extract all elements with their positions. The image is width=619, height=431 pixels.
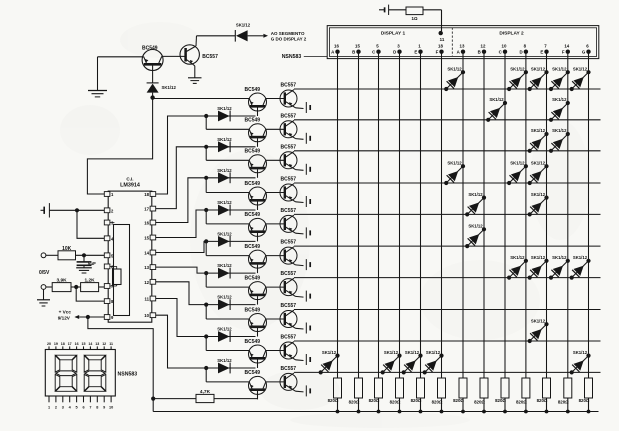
svg-text:1: 1 [48,406,50,410]
svg-text:SK1/12: SK1/12 [217,327,232,332]
svg-text:BC549: BC549 [245,339,261,345]
svg-text:12: 12 [481,44,486,49]
svg-text:SK1/12: SK1/12 [217,358,232,363]
svg-text:16: 16 [334,44,339,49]
svg-text:BC549: BC549 [245,87,261,93]
svg-text:20: 20 [47,342,51,346]
svg-text:820Ω: 820Ω [474,399,485,404]
svg-text:SK1/12: SK1/12 [447,160,462,165]
svg-text:G: G [582,50,586,55]
svg-text:4,7K: 4,7K [200,389,211,395]
svg-text:15: 15 [144,236,149,241]
svg-text:11: 11 [144,297,149,302]
svg-text:10: 10 [109,406,113,410]
svg-text:9: 9 [103,406,105,410]
svg-text:11: 11 [109,342,113,346]
svg-text:SK1/12: SK1/12 [573,350,588,355]
svg-text:SK1/12: SK1/12 [510,66,525,71]
svg-text:5μF: 5μF [88,261,96,266]
svg-text:820Ω: 820Ω [369,398,380,403]
svg-text:BC549: BC549 [245,370,261,376]
svg-text:13: 13 [460,44,465,49]
svg-text:SK1/12: SK1/12 [552,255,567,260]
svg-text:14: 14 [564,44,569,49]
svg-text:6: 6 [82,406,84,410]
svg-text:SK1/12: SK1/12 [384,350,399,355]
svg-text:SK1/12: SK1/12 [468,192,483,197]
svg-text:NSN583: NSN583 [118,371,138,377]
svg-text:17: 17 [144,207,149,212]
svg-text:13: 13 [95,342,99,346]
svg-text:16: 16 [144,221,149,226]
svg-text:B: B [352,50,355,55]
svg-text:12: 12 [144,280,149,285]
svg-text:C.I.: C.I. [126,176,133,181]
svg-text:SK1/12: SK1/12 [531,66,546,71]
svg-text:820Ω: 820Ω [495,398,506,403]
svg-text:11: 11 [440,37,445,42]
svg-text:BC557: BC557 [281,144,297,150]
svg-text:SK1/12: SK1/12 [552,97,567,102]
svg-text:SK1/12: SK1/12 [573,255,588,260]
svg-text:G DO DISPLAY 2: G DO DISPLAY 2 [271,37,307,42]
svg-text:14: 14 [88,342,92,346]
svg-text:E: E [414,50,417,55]
svg-text:17: 17 [68,342,72,346]
svg-text:SK1/12: SK1/12 [531,318,546,323]
svg-text:F: F [436,50,439,55]
svg-text:12: 12 [102,342,106,346]
svg-text:820Ω: 820Ω [349,399,360,404]
svg-text:AO SEGMENTO: AO SEGMENTO [271,31,305,36]
svg-text:D: D [520,50,523,55]
svg-text:SK1/12: SK1/12 [510,160,525,165]
svg-text:13: 13 [144,265,149,270]
svg-text:LM3914: LM3914 [120,183,140,189]
svg-text:NSN583: NSN583 [282,54,302,60]
svg-text:820Ω: 820Ω [390,399,401,404]
svg-text:15: 15 [82,342,86,346]
svg-text:10: 10 [144,313,149,318]
svg-text:14: 14 [144,251,149,256]
svg-text:9/12V: 9/12V [58,315,71,320]
svg-text:1,2K: 1,2K [85,277,96,283]
svg-text:820Ω: 820Ω [579,398,590,403]
svg-text:820Ω: 820Ω [537,398,548,403]
svg-text:820Ω: 820Ω [558,399,569,404]
svg-text:SK1/12: SK1/12 [531,255,546,260]
svg-text:1Ω: 1Ω [412,16,418,21]
svg-text:820Ω: 820Ω [516,399,527,404]
svg-text:SK1/12: SK1/12 [426,350,441,355]
svg-text:10: 10 [502,44,507,49]
svg-text:10K: 10K [62,246,72,252]
svg-text:3: 3 [62,406,64,410]
svg-text:8: 8 [96,406,98,410]
svg-text:18: 18 [438,44,443,49]
svg-text:2: 2 [55,406,57,410]
svg-text:DISPLAY 1: DISPLAY 1 [381,31,406,37]
svg-text:F: F [562,50,565,55]
svg-text:SK1/12: SK1/12 [322,350,337,355]
svg-text:18: 18 [61,342,65,346]
svg-text:820Ω: 820Ω [453,398,464,403]
svg-text:16: 16 [75,342,79,346]
svg-text:15: 15 [355,44,360,49]
svg-text:SK1/12: SK1/12 [447,66,462,71]
svg-text:SK1/12: SK1/12 [468,224,483,229]
svg-text:SK1/12: SK1/12 [489,97,504,102]
svg-text:5: 5 [76,406,78,410]
svg-text:820Ω: 820Ω [411,398,422,403]
svg-text:3,9K: 3,9K [57,277,68,283]
svg-text:0/5V: 0/5V [39,270,50,276]
svg-text:+ Vcc: + Vcc [59,309,72,314]
svg-text:D: D [393,50,396,55]
svg-text:B: B [478,50,481,55]
svg-text:SK1/12: SK1/12 [573,66,588,71]
svg-text:SK1/12: SK1/12 [552,66,567,71]
svg-text:SK1/12: SK1/12 [236,23,251,28]
svg-text:BC549: BC549 [245,118,261,124]
svg-text:BC557: BC557 [281,335,297,341]
svg-text:SK1/12: SK1/12 [217,106,232,111]
svg-text:SK1/12: SK1/12 [162,85,177,90]
svg-text:E: E [540,50,543,55]
svg-text:BC557: BC557 [281,113,297,119]
svg-text:BC557: BC557 [202,54,218,60]
svg-text:19: 19 [54,342,58,346]
svg-text:7: 7 [89,406,91,410]
svg-text:DISPLAY 2: DISPLAY 2 [499,31,524,37]
svg-text:SK1/12: SK1/12 [217,137,232,142]
svg-text:820Ω: 820Ω [432,399,443,404]
svg-text:18: 18 [144,192,149,197]
svg-text:BC557: BC557 [281,83,297,89]
svg-text:SK1/12: SK1/12 [405,350,420,355]
svg-text:SK1/12: SK1/12 [510,255,525,260]
